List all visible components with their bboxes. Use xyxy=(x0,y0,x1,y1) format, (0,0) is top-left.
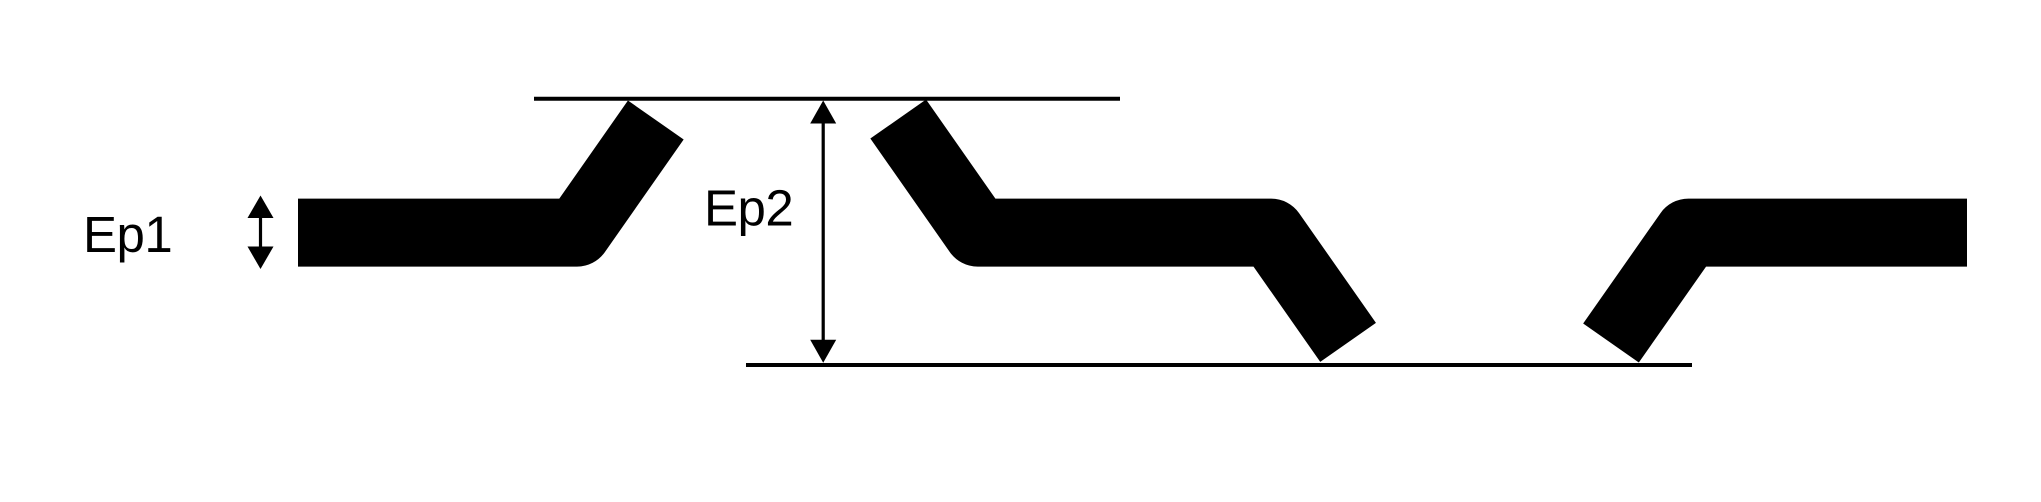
corrugation strip segment 3 (right bar with down-bend) xyxy=(1611,233,1967,343)
dimension arrow Ep1 xyxy=(248,196,274,270)
upper reference line xyxy=(534,97,1120,101)
corrugation strip segment 2 (middle Z piece) xyxy=(898,119,1348,342)
svg-text:Ep2: Ep2 xyxy=(704,180,793,237)
svg-text:Ep1: Ep1 xyxy=(83,206,172,263)
lower reference line xyxy=(746,363,1692,367)
dimension arrow Ep2 xyxy=(810,101,836,363)
corrugation strip segment 1 (left bar with up-bend) xyxy=(298,120,656,233)
